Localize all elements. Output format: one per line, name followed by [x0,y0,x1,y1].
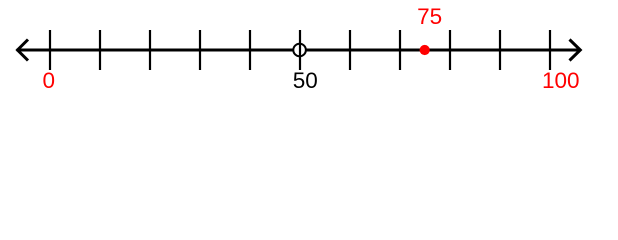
left arrowhead [18,40,29,61]
tick 90 [499,30,501,70]
tick 10 [99,30,101,70]
tick 40 [249,30,251,70]
tick 20 [149,30,151,70]
svg-text:0: 0 [43,68,56,93]
svg-text:50: 50 [293,68,318,93]
tick 50 (through circle) [299,30,301,70]
red point at 75 [420,45,430,55]
svg-text:75: 75 [417,4,442,29]
tick 30 [199,30,201,70]
tick 60 [349,30,351,70]
svg-text:100: 100 [542,68,580,93]
tick 80 [449,30,451,70]
tick 70 [399,30,401,70]
tick 100 [549,30,551,70]
right arrowhead [570,40,581,61]
tick 0 [49,30,51,70]
number line axis [17,49,582,52]
open circle at 50 [293,44,306,57]
